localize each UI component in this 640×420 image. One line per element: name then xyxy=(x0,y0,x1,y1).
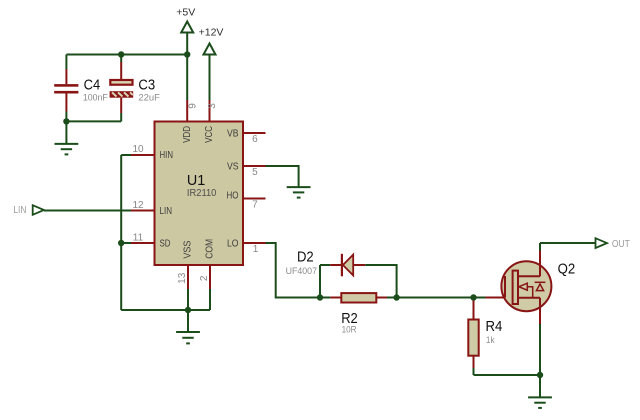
wire LO to node xyxy=(266,243,320,298)
junction dot R4 top xyxy=(470,294,476,300)
power +12V xyxy=(199,27,224,55)
svg-text:SD: SD xyxy=(160,238,171,249)
svg-text:LIN: LIN xyxy=(13,204,26,216)
svg-text:U1: U1 xyxy=(187,172,205,189)
svg-text:100nF: 100nF xyxy=(83,93,108,104)
svg-text:VS: VS xyxy=(227,161,239,172)
svg-text:10R: 10R xyxy=(342,325,357,336)
svg-text:6: 6 xyxy=(252,134,258,145)
svg-text:Q2: Q2 xyxy=(558,261,576,277)
junction dot D2/R2 left xyxy=(317,294,323,300)
U1 pin VB (6) xyxy=(227,128,266,145)
svg-text:IR2110: IR2110 xyxy=(187,188,217,199)
svg-text:C3: C3 xyxy=(138,77,155,93)
wire diode row right xyxy=(365,265,396,298)
svg-text:HO: HO xyxy=(227,190,239,201)
svg-text:VCC: VCC xyxy=(204,126,215,143)
wire drain to OUT xyxy=(540,242,596,244)
svg-text:22uF: 22uF xyxy=(138,93,160,104)
U1 pin LO (1) xyxy=(227,238,266,255)
svg-text:COM: COM xyxy=(205,239,216,259)
wire top rail (C4 to +5V line) xyxy=(66,54,187,56)
wire VS to ground xyxy=(266,166,299,187)
svg-text:9: 9 xyxy=(187,103,198,109)
svg-text:11: 11 xyxy=(133,232,144,243)
svg-text:+5V: +5V xyxy=(176,7,195,19)
wire COM down xyxy=(209,289,211,310)
U1 pin SD (11) xyxy=(131,232,171,249)
svg-text:2: 2 xyxy=(199,275,210,281)
terminal OUT xyxy=(596,238,631,250)
wire LIN to pin 12 xyxy=(44,210,131,212)
svg-text:C4: C4 xyxy=(84,77,101,93)
junction dot C3 top xyxy=(118,51,124,57)
ground at VS xyxy=(287,187,311,198)
wire gate run xyxy=(397,297,486,299)
resistor R2 xyxy=(330,293,387,336)
junction dot IC ground xyxy=(185,307,191,313)
ground below Q2 xyxy=(528,397,552,408)
svg-text:1k: 1k xyxy=(486,335,495,346)
svg-text:VDD: VDD xyxy=(182,126,193,143)
svg-text:7: 7 xyxy=(252,199,258,210)
svg-text:VB: VB xyxy=(227,128,239,139)
U1 pin HO (7) xyxy=(227,190,266,210)
svg-text:1: 1 xyxy=(253,244,259,255)
svg-text:VSS: VSS xyxy=(183,240,194,258)
power +5V xyxy=(176,7,195,33)
wire HIN stub link xyxy=(121,154,131,156)
wire node to R2 xyxy=(320,297,330,299)
capacitor C4 xyxy=(54,55,108,122)
svg-text:OUT: OUT xyxy=(612,238,630,250)
svg-text:5: 5 xyxy=(252,167,258,178)
svg-text:+12V: +12V xyxy=(199,27,224,39)
junction dot +5V rail xyxy=(184,51,190,57)
junction dot source/ground xyxy=(537,372,543,378)
IC U1 IR2110 body xyxy=(155,122,244,266)
wire diode branch left riser xyxy=(319,265,321,298)
transistor Q2 (MOSFET) xyxy=(486,251,576,325)
junction dot C4 bottom xyxy=(63,118,69,124)
ground below C4 xyxy=(55,121,79,154)
svg-text:12: 12 xyxy=(132,200,144,211)
wire IC ground rail xyxy=(121,309,210,311)
svg-text:R4: R4 xyxy=(486,319,503,335)
wire source down xyxy=(539,324,541,397)
wire R4 bottom to source xyxy=(474,374,541,376)
svg-text:D2: D2 xyxy=(297,249,314,265)
wire SD stub link xyxy=(121,242,131,244)
U1 pin VCC (3) xyxy=(204,100,218,143)
svg-text:3: 3 xyxy=(207,103,218,109)
svg-text:UF4007: UF4007 xyxy=(286,266,317,277)
U1 pin VS (5) xyxy=(227,161,266,178)
ground below U1 xyxy=(176,310,200,343)
svg-text:10: 10 xyxy=(132,144,144,155)
diode D2 xyxy=(286,249,366,277)
wire R2 to junction xyxy=(387,297,397,299)
wire bottom cap rail xyxy=(66,120,121,122)
capacitor C3 xyxy=(110,55,160,122)
wire vertical HIN/SD bus xyxy=(120,155,122,310)
U1 pin COM (2) xyxy=(199,239,216,289)
U1 pin VSS (13) xyxy=(177,240,194,289)
wire VSS down xyxy=(187,289,189,310)
svg-text:HIN: HIN xyxy=(160,150,174,161)
terminal LIN xyxy=(13,204,44,216)
wire diode row left xyxy=(320,264,330,266)
junction dot SD xyxy=(118,240,124,246)
U1 pin HIN (10) xyxy=(131,144,173,161)
svg-text:LIN: LIN xyxy=(160,206,173,217)
wire +12V rail down xyxy=(209,55,211,101)
resistor R4 xyxy=(468,298,502,376)
junction dot D2/R2 right xyxy=(393,294,399,300)
wire drain up xyxy=(539,243,541,251)
U1 pin LIN (12) xyxy=(131,200,172,217)
wire +5V rail down xyxy=(186,33,188,101)
svg-text:LO: LO xyxy=(227,238,239,249)
svg-text:13: 13 xyxy=(177,272,188,284)
U1 pin VDD (9) xyxy=(182,100,198,143)
